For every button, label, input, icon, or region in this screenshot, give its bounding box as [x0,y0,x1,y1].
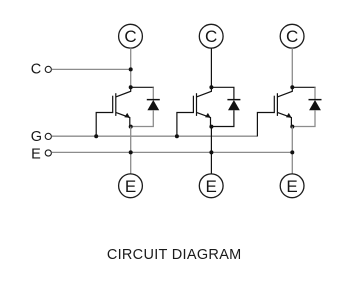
node gate junction 2 [175,134,179,138]
emitter arrow Q3 [286,113,292,118]
terminal circle C [45,66,51,72]
diode D2 [227,99,240,110]
terminal circle E [45,150,51,156]
terminal circle E2 (bottom) [199,174,223,198]
node gate junction 1 [94,134,98,138]
node C-row junction 1 [129,67,133,71]
emitter arrow Q1 [124,113,130,118]
wire diode cathode stub 2 [233,87,235,99]
svg-text:CIRCUIT DIAGRAM: CIRCUIT DIAGRAM [107,247,242,263]
node emitter junction 2 [209,125,213,129]
node E-bus junction 3 [290,150,294,154]
svg-text:G: G [31,129,42,145]
wire diode anode link 1 [131,110,154,126]
wire C lead [52,68,131,70]
svg-text:C: C [286,27,298,46]
wire emitter vertical 1 [130,127,132,175]
node E-bus junction 1 [129,150,133,154]
wire diode anode link 3 [292,110,315,126]
node E-bus junction 2 [209,150,213,154]
terminal circle G [45,133,51,139]
svg-text:E: E [206,177,217,196]
wire G bus [52,135,258,137]
diode D3 [309,99,322,110]
svg-text:E: E [31,147,41,163]
wire diode cathode stub 1 [152,87,154,99]
terminal circle C3 (top) [280,24,304,48]
terminal circle C1 (top) [119,24,143,48]
wire diode top link 2 [211,86,234,88]
transistor Q3 (IGBT) [274,87,292,126]
terminal circle E3 (bottom) [280,174,304,198]
svg-text:C: C [205,27,217,46]
wire emitter vertical 2 [210,127,212,175]
terminal circle E1 (bottom) [119,174,143,198]
wire gate lead Q2 [177,113,194,137]
node collector junction 1 [129,85,133,89]
wire collector stub 2 [210,48,212,87]
terminal circle C2 (top) [199,24,223,48]
svg-text:C: C [124,27,136,46]
node collector junction 2 [209,85,213,89]
svg-text:C: C [31,61,41,77]
emitter arrow Q2 [205,113,211,118]
svg-text:E: E [286,177,297,196]
wire E bus [52,151,293,153]
wire diode top link 3 [292,86,315,88]
transistor Q1 (IGBT) [113,87,131,126]
node emitter junction 1 [129,125,133,129]
diode D1 [147,99,160,110]
wire gate lead Q1 [96,113,113,137]
wire emitter vertical 3 [291,127,293,175]
transistor Q2 (IGBT) [193,87,211,126]
node emitter junction 3 [290,125,294,129]
wire diode anode link 2 [211,110,234,126]
wire collector stub 1 [130,48,132,87]
wire gate lead Q3 [257,113,274,137]
node collector junction 3 [290,85,294,89]
svg-text:E: E [125,177,136,196]
wire diode top link 1 [131,86,154,88]
wire diode cathode stub 3 [314,87,316,99]
wire collector stub 3 [291,48,293,87]
